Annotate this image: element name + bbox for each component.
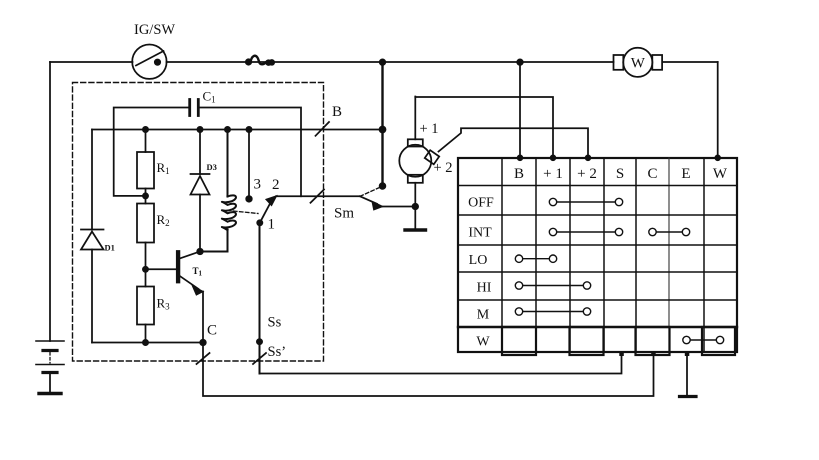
dashed enclosure (timer unit) [73, 83, 324, 362]
node bus-R1 [143, 127, 148, 132]
node S terminal [619, 352, 624, 357]
node bus-contact3 [246, 127, 251, 132]
node C exit slash [197, 353, 210, 364]
svg-text:Sm: Sm [334, 206, 354, 222]
node R1-R2 / C1 tap [143, 193, 148, 198]
table contacts HI row [515, 282, 590, 289]
node bus-D3 [197, 127, 202, 132]
wire Ss vertical [259, 225, 261, 374]
resistor R1 [137, 130, 170, 204]
wire battery positive (left outer vertical) [49, 62, 51, 341]
wire Sm to motor ground [382, 206, 415, 208]
table grid [458, 158, 737, 352]
node E terminal [685, 352, 690, 357]
diode D3 [191, 130, 217, 252]
wire Ss' to table S [260, 354, 622, 374]
ground E [680, 395, 697, 398]
svg-text:OFF: OFF [468, 196, 494, 211]
svg-text:W: W [713, 166, 728, 182]
table contacts W row [683, 336, 724, 343]
table row labels [468, 196, 494, 350]
table contacts LO row [515, 255, 556, 262]
node bus-coil [225, 127, 230, 132]
node B-feed on bus [380, 127, 386, 133]
relay armature (contact 1 to 2) [257, 177, 279, 233]
svg-text:INT: INT [468, 226, 492, 241]
node junction above table B [517, 59, 523, 65]
svg-text:Ss’: Ss’ [268, 344, 287, 360]
svg-text:E: E [681, 166, 690, 182]
table contacts OFF row [549, 198, 622, 205]
svg-text:LO: LO [469, 253, 488, 268]
node collector/D3/coil [197, 249, 203, 255]
svg-text:W: W [631, 56, 646, 72]
svg-text:C: C [207, 323, 217, 339]
svg-text:C: C [647, 166, 657, 182]
wire B feed vertical [381, 62, 383, 186]
wire top rail [50, 61, 133, 63]
svg-text:B: B [332, 104, 342, 120]
node motor-ground junction [413, 204, 419, 210]
svg-text:B: B [514, 166, 524, 182]
wire table-B vertical [519, 62, 521, 158]
table contacts M row [515, 308, 590, 315]
node B (slash marker) [316, 104, 343, 136]
wire contact2 to Sm [276, 195, 360, 197]
table terminal tabs [502, 327, 735, 355]
wire bottom rail (C node) [92, 342, 203, 344]
wire C exit down/right to table C [203, 343, 654, 397]
resistor R3 [137, 287, 170, 343]
node C [200, 340, 206, 346]
motor M (wiper motor) [399, 97, 452, 229]
battery [36, 341, 64, 392]
svg-text:1: 1 [268, 217, 276, 233]
table contacts INT row [549, 228, 689, 235]
switch Sm (park switch) [360, 183, 385, 209]
resistor R2 [137, 204, 170, 287]
capacitor C1 [114, 89, 301, 197]
svg-text:+ 2: + 2 [434, 160, 453, 176]
svg-text:IG/SW: IG/SW [134, 22, 175, 38]
node C terminal [651, 352, 656, 357]
relay contact 3 [246, 130, 261, 202]
svg-text:W: W [476, 335, 490, 350]
diode D1 [81, 130, 115, 343]
svg-text:2: 2 [272, 177, 280, 193]
node junction top-left of motor [380, 59, 386, 65]
wire bus B (inner horizontal) [92, 129, 383, 131]
svg-text:D1: D1 [105, 243, 115, 253]
node Sm (slash marker) [311, 190, 355, 222]
wire emitter down to C rail [202, 292, 204, 343]
table header text [514, 166, 728, 182]
svg-text:S: S [616, 166, 624, 182]
wire motor +1 to table [415, 97, 553, 158]
fuse F1 [246, 56, 274, 65]
svg-text:+ 2: + 2 [577, 166, 597, 182]
node dots above table [518, 155, 523, 160]
transistor T1 [147, 251, 203, 295]
wire table-W vertical [717, 62, 719, 158]
ground battery [39, 392, 61, 395]
svg-text:Ss: Ss [268, 315, 282, 331]
svg-text:HI: HI [477, 281, 492, 296]
ground motor [405, 228, 426, 231]
node Ss' slash [253, 353, 266, 364]
wire E to ground [686, 354, 688, 395]
wire coil-armature mechanical link (dashed) [234, 211, 259, 214]
relay coil L1 [200, 130, 236, 252]
svg-text:3: 3 [254, 177, 262, 193]
svg-text:M: M [477, 308, 490, 323]
motor W (washer) [614, 48, 663, 77]
svg-text:+ 1: + 1 [420, 121, 439, 137]
node Ss [257, 339, 262, 344]
node R3 bottom [143, 340, 148, 345]
svg-text:D3: D3 [207, 162, 217, 172]
svg-text:+ 1: + 1 [543, 166, 563, 182]
switch IG/SW [132, 22, 175, 79]
node base tap [143, 267, 148, 272]
wire motor +2 to table [439, 128, 589, 157]
